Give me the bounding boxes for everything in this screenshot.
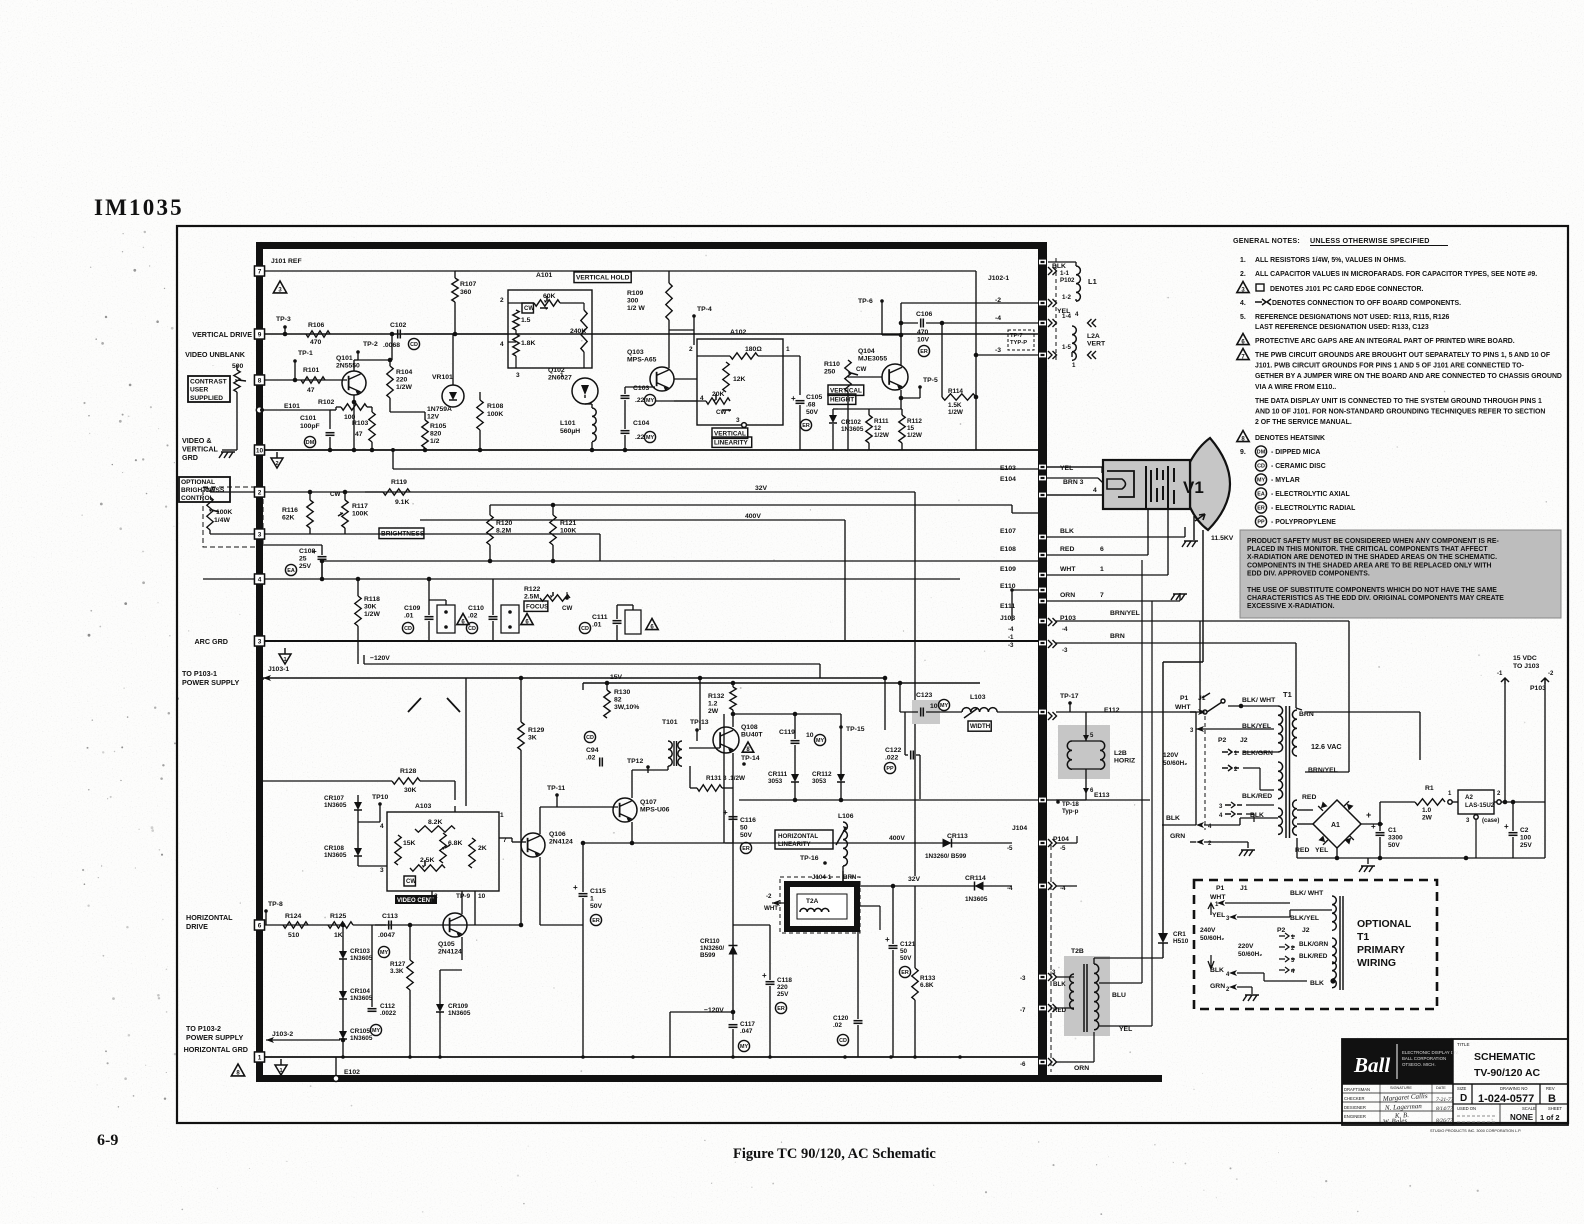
open triangle ground bottom — [280, 1059, 282, 1065]
svg-text:TP-2: TP-2 — [363, 341, 378, 348]
svg-text:50V: 50V — [590, 903, 603, 910]
svg-text:REV: REV — [1546, 1086, 1555, 1091]
svg-text:COMPONENTS IN THE SHADED AREA: COMPONENTS IN THE SHADED AREA ARE TO BE … — [1247, 562, 1492, 569]
svg-text:30K: 30K — [364, 604, 377, 611]
wire top bus 2 — [470, 270, 976, 272]
pin 9 — [255, 329, 265, 339]
svg-text:CR107: CR107 — [324, 795, 344, 802]
capacitor code CD — [1255, 460, 1266, 471]
svg-text:2N4124: 2N4124 — [549, 839, 573, 846]
svg-text:CR1: CR1 — [1173, 931, 1186, 938]
wire Q101 collector up to TP-2 node — [353, 360, 355, 371]
svg-text:50/60H₂: 50/60H₂ — [1163, 760, 1187, 767]
svg-text:ARC GRD: ARC GRD — [194, 637, 228, 646]
svg-text:C1: C1 — [1388, 827, 1397, 834]
svg-text:LAS-15U2: LAS-15U2 — [1465, 802, 1495, 809]
CRT grid bars — [1145, 466, 1147, 509]
svg-text:Q103: Q103 — [627, 349, 644, 356]
svg-text:+: + — [1504, 822, 1509, 831]
svg-text:C103: C103 — [633, 385, 649, 392]
svg-text:VR101: VR101 — [432, 374, 453, 381]
svg-text:R127: R127 — [390, 961, 406, 968]
svg-text:25: 25 — [299, 556, 307, 563]
svg-text:R133: R133 — [920, 975, 936, 982]
wire CRT grid to WHT row — [1167, 509, 1169, 575]
svg-text:CONTRAST: CONTRAST — [190, 379, 227, 386]
svg-text:TP-6: TP-6 — [858, 298, 873, 305]
svg-text:R130: R130 — [614, 689, 630, 696]
svg-text:MPS-A65: MPS-A65 — [627, 357, 657, 364]
svg-text:1: 1 — [500, 812, 504, 819]
svg-text:MY: MY — [816, 738, 824, 744]
svg-text:1N3605: 1N3605 — [965, 896, 988, 903]
wire row to E107 — [262, 450, 264, 455]
svg-text:E107: E107 — [1000, 528, 1016, 535]
pin 3 — [255, 529, 265, 539]
svg-text:L101: L101 — [560, 420, 576, 427]
svg-text:1-5: 1-5 — [1062, 344, 1072, 351]
pin 7 J101 — [255, 266, 265, 276]
CRT grid electrode bracket — [1107, 471, 1134, 497]
svg-text:3053: 3053 — [812, 778, 827, 785]
svg-text:100pF: 100pF — [300, 423, 320, 430]
capacitor C112 .0022 MY — [368, 1008, 377, 1010]
title block outer — [1342, 1039, 1568, 1125]
svg-text:50: 50 — [740, 825, 748, 832]
svg-text:CD: CD — [586, 735, 594, 741]
wire Q107 collector to T101 — [631, 770, 633, 798]
svg-text:BLK/RED: BLK/RED — [1242, 793, 1272, 800]
svg-text:30K: 30K — [404, 787, 417, 794]
L2B top lead — [1085, 712, 1087, 741]
svg-text:BLK/RED: BLK/RED — [1299, 953, 1328, 960]
svg-text:E102: E102 — [344, 1069, 360, 1076]
svg-text:2.5M: 2.5M — [524, 594, 539, 601]
svg-text:360: 360 — [460, 289, 472, 296]
svg-text:470: 470 — [917, 329, 929, 336]
svg-text:1N3605: 1N3605 — [350, 1035, 373, 1042]
connector dashed line J102 — [1055, 258, 1057, 360]
svg-text:R131 3 .1/2W: R131 3 .1/2W — [706, 775, 746, 782]
dashed mains line — [1204, 716, 1206, 830]
transformer T2A black box — [787, 884, 857, 929]
svg-text:220V: 220V — [1238, 943, 1254, 950]
A101 CW box — [522, 303, 533, 313]
pin 10 — [255, 445, 265, 455]
svg-text:3: 3 — [736, 417, 740, 424]
svg-text:GETHER BY A JUMPER WIRE ON THE: GETHER BY A JUMPER WIRE ON THE BOARD AND… — [1255, 373, 1562, 380]
svg-text:PRODUCT SAFETY MUST BE CONSIDE: PRODUCT SAFETY MUST BE CONSIDERED WHEN A… — [1247, 538, 1499, 545]
connector bar pin notches — [1039, 260, 1046, 265]
svg-text:J2: J2 — [1240, 737, 1248, 744]
svg-text:BLU: BLU — [1112, 992, 1126, 999]
svg-text:1N3260/: 1N3260/ — [700, 945, 724, 952]
svg-text:47: 47 — [355, 431, 363, 438]
wire C102 right to A101 — [404, 333, 508, 335]
svg-text:J104: J104 — [1012, 825, 1027, 832]
svg-text:J103: J103 — [1000, 615, 1015, 622]
switch J1 — [1203, 710, 1207, 714]
svg-text:1N3605: 1N3605 — [448, 1010, 471, 1017]
chassis ground at ORN row — [1179, 593, 1181, 601]
svg-text:-1: -1 — [1497, 671, 1503, 677]
svg-text:TP-5: TP-5 — [923, 377, 938, 384]
A103 CW box — [404, 876, 415, 886]
svg-text:-5: -5 — [1060, 845, 1066, 852]
capacitor code ER — [1255, 502, 1266, 513]
svg-text:.22: .22 — [635, 397, 645, 404]
svg-text:- CERAMIC DISC: - CERAMIC DISC — [1271, 463, 1326, 470]
svg-text:BLK/GRN: BLK/GRN — [1242, 750, 1273, 757]
svg-text:220: 220 — [396, 377, 408, 384]
svg-text:BRN/YEL: BRN/YEL — [1308, 767, 1338, 774]
svg-text:.0022: .0022 — [380, 1010, 396, 1017]
svg-text:−120V: −120V — [370, 655, 390, 662]
signatures script — [1382, 1092, 1454, 1126]
svg-text:-4: -4 — [1007, 885, 1013, 892]
svg-text:.01: .01 — [592, 622, 602, 629]
svg-text:1/4W: 1/4W — [214, 517, 230, 524]
svg-text:3: 3 — [516, 372, 520, 379]
svg-text:LINEARITY: LINEARITY — [778, 841, 812, 848]
svg-text:Typ-p: Typ-p — [1062, 808, 1079, 815]
svg-text:1N3605: 1N3605 — [350, 955, 373, 962]
svg-text:R108: R108 — [487, 403, 503, 410]
svg-text:T1: T1 — [1357, 931, 1369, 943]
wire 400V feed vertical — [723, 714, 725, 843]
x-radiation warning shaded box — [1240, 530, 1561, 618]
svg-text:R119: R119 — [391, 479, 407, 486]
svg-text:3W,10%: 3W,10% — [614, 704, 639, 711]
svg-text:2.5K: 2.5K — [420, 857, 434, 864]
wire P1 mains vertical — [1195, 712, 1197, 825]
svg-text:Ball: Ball — [1353, 1053, 1390, 1077]
svg-text:7: 7 — [1100, 592, 1104, 599]
L2B bottom lead — [1085, 769, 1087, 800]
svg-text:P102: P102 — [1060, 277, 1075, 284]
svg-text:HORIZONTAL GRD: HORIZONTAL GRD — [184, 1045, 248, 1054]
chassis ground at video gnd — [222, 449, 237, 451]
svg-text:TP12: TP12 — [627, 758, 643, 765]
used on / scale / sheet row — [1453, 1103, 1568, 1105]
capacitor code MY — [1255, 474, 1266, 485]
svg-text:6: 6 — [1100, 546, 1104, 553]
svg-text:.02: .02 — [468, 613, 478, 620]
svg-text:.01: .01 — [404, 613, 414, 620]
svg-text:6.8K: 6.8K — [448, 840, 462, 847]
svg-text:C111: C111 — [592, 614, 608, 621]
CRT anode arrow 11.5KV — [1195, 514, 1205, 521]
svg-text:MY: MY — [940, 703, 948, 709]
svg-text:BRN 3: BRN 3 — [1063, 479, 1084, 486]
svg-text:1: 1 — [1072, 362, 1076, 369]
PCB board border thick bar bottom — [256, 1075, 1162, 1082]
svg-text:50V: 50V — [900, 955, 912, 962]
svg-text:DRIVE: DRIVE — [186, 922, 208, 931]
svg-text:GRD: GRD — [182, 453, 198, 462]
arc gap warning triangle 2 — [521, 614, 533, 625]
label HORIZONTAL LINEARITY box — [775, 830, 833, 849]
svg-text:1.5: 1.5 — [521, 317, 531, 324]
svg-text:R106: R106 — [308, 322, 324, 329]
bridge rectifier A1 — [1313, 800, 1361, 848]
svg-text:LINEARITY: LINEARITY — [714, 439, 748, 446]
svg-text:YEL: YEL — [1212, 912, 1225, 919]
svg-text:8.2K: 8.2K — [428, 819, 442, 826]
svg-text:EDD DIV. APPROVED COMPONENTS.: EDD DIV. APPROVED COMPONENTS. — [1247, 570, 1370, 577]
svg-text:1N3605: 1N3605 — [324, 802, 347, 809]
svg-text:R101: R101 — [303, 367, 319, 374]
CRT ground — [1193, 516, 1195, 540]
svg-text:YEL: YEL — [1060, 465, 1073, 472]
svg-text:THE PWB CIRCUIT GROUNDS ARE BR: THE PWB CIRCUIT GROUNDS ARE BROUGHT OUT … — [1255, 352, 1550, 359]
svg-text:CHECKER: CHECKER — [1344, 1096, 1364, 1101]
svg-text:50V: 50V — [740, 832, 753, 839]
transistor Q106 2N4124 — [521, 833, 545, 857]
svg-text:- MYLAR: - MYLAR — [1271, 477, 1300, 484]
svg-text:50/60H₂: 50/60H₂ — [1238, 951, 1262, 958]
svg-text:CR113: CR113 — [947, 833, 968, 840]
svg-text:6: 6 — [258, 923, 262, 930]
optional T1 primary wiring box — [1194, 880, 1437, 1009]
svg-text:C102: C102 — [390, 322, 406, 329]
svg-text:10: 10 — [478, 893, 486, 900]
svg-text:R125: R125 — [330, 913, 346, 920]
svg-text:CW: CW — [856, 366, 866, 373]
svg-text:R129: R129 — [528, 727, 544, 734]
svg-text:3: 3 — [258, 532, 262, 539]
svg-text:50/60H₂: 50/60H₂ — [1200, 935, 1224, 942]
svg-text:TV-90/120 AC: TV-90/120 AC — [1474, 1067, 1541, 1079]
wires brightness pot to pins 2,3,4 — [210, 491, 254, 493]
transistor Q105 2N4124 — [443, 913, 467, 937]
svg-text:2N4124: 2N4124 — [438, 949, 462, 956]
svg-text:CD: CD — [468, 626, 476, 632]
note 8 triangle heatsink — [1237, 431, 1249, 442]
svg-text:OTSEGO. MICH.: OTSEGO. MICH. — [1402, 1062, 1436, 1067]
svg-text:(case): (case) — [1482, 818, 1499, 824]
svg-text:DESIGNER: DESIGNER — [1344, 1105, 1366, 1110]
svg-text:180Ω: 180Ω — [745, 346, 762, 353]
svg-text:BU40T: BU40T — [741, 732, 763, 739]
svg-text:4: 4 — [1075, 311, 1079, 318]
svg-text:250: 250 — [824, 369, 836, 376]
svg-text:560µH: 560µH — [560, 428, 580, 435]
svg-text:BLK/GRN: BLK/GRN — [1299, 941, 1328, 948]
wire Q108 collector row — [733, 713, 841, 715]
svg-text:TP-17: TP-17 — [1060, 693, 1079, 700]
wires A2 output — [1497, 800, 1501, 804]
TP-7 dashed box — [1008, 330, 1034, 350]
svg-text:1: 1 — [786, 346, 790, 353]
svg-text:2 OF THE SERVICE MANUAL.: 2 OF THE SERVICE MANUAL. — [1255, 419, 1352, 426]
svg-text:TP-4: TP-4 — [697, 306, 712, 313]
svg-text:OPTIONAL: OPTIONAL — [1357, 918, 1412, 930]
svg-text:-1: -1 — [1008, 634, 1014, 641]
warning triangle 3 at J101 — [273, 281, 286, 293]
optional T1 winding — [1332, 896, 1336, 930]
svg-text:A103: A103 — [415, 803, 431, 810]
wire arc grd bus — [265, 640, 1038, 642]
svg-text:C104: C104 — [633, 420, 649, 427]
svg-text:CR105: CR105 — [350, 1028, 370, 1035]
svg-text:25V: 25V — [777, 991, 789, 998]
svg-text:BALL CORPORATION: BALL CORPORATION — [1402, 1056, 1446, 1061]
svg-text:-6: -6 — [1020, 1061, 1026, 1068]
svg-text:TP-1: TP-1 — [298, 350, 313, 357]
svg-text:+: + — [1366, 810, 1371, 820]
wire Q101 base — [258, 379, 347, 381]
svg-text:1/2: 1/2 — [430, 438, 440, 445]
svg-text:SIZE: SIZE — [1457, 1086, 1467, 1091]
svg-text:J103-1: J103-1 — [268, 666, 289, 673]
T2B secondary coil — [1094, 964, 1099, 1030]
svg-text:R104: R104 — [396, 369, 412, 376]
svg-text:R105: R105 — [430, 423, 446, 430]
svg-text:T1: T1 — [1283, 690, 1292, 699]
svg-text:12: 12 — [874, 425, 882, 432]
svg-text:100: 100 — [1520, 834, 1531, 841]
svg-text:CD: CD — [581, 626, 589, 632]
heatsink triangle at Q108 — [742, 742, 753, 752]
wires heading to P104 from right nets — [1056, 842, 1077, 844]
arrows into J1 — [1198, 709, 1206, 715]
svg-text:8.2M: 8.2M — [496, 528, 511, 535]
svg-text:-4: -4 — [995, 315, 1001, 322]
svg-text:Q102: Q102 — [548, 367, 565, 374]
svg-text:CR114: CR114 — [965, 875, 986, 882]
svg-text:Q104: Q104 — [858, 348, 875, 355]
svg-text:USED ON: USED ON — [1457, 1106, 1476, 1111]
svg-text:TP10: TP10 — [372, 794, 388, 801]
svg-text:CHARACTERISTICS AS THE EDD DIV: CHARACTERISTICS AS THE EDD DIV. ORIGINAL… — [1247, 595, 1504, 602]
svg-text:1: 1 — [258, 1055, 262, 1062]
svg-text:3: 3 — [258, 639, 262, 646]
svg-text:CR104: CR104 — [350, 988, 370, 995]
svg-text:TO J103: TO J103 — [1513, 663, 1540, 670]
svg-text:BLK/ WHT: BLK/ WHT — [1290, 890, 1324, 897]
svg-text:15K: 15K — [403, 840, 416, 847]
svg-text:C119: C119 — [779, 729, 795, 736]
wire bottom bus power — [1297, 857, 1520, 859]
svg-text:R120: R120 — [496, 520, 512, 527]
svg-text:1-2: 1-2 — [1062, 294, 1072, 301]
svg-text:HORIZONTAL: HORIZONTAL — [778, 833, 818, 840]
svg-text:1-4: 1-4 — [1062, 313, 1072, 320]
svg-text:CONTROL: CONTROL — [181, 495, 214, 502]
wire Q101 emitter down — [353, 395, 355, 402]
wire E110 drop — [1011, 590, 1013, 621]
svg-text:1.5K: 1.5K — [948, 402, 962, 409]
svg-text:CD: CD — [1257, 464, 1265, 470]
svg-text:MY: MY — [372, 1028, 380, 1034]
svg-text:C94: C94 — [586, 747, 599, 754]
wire 15V row — [583, 682, 980, 684]
T2B primary coil — [1070, 974, 1074, 1009]
T1 core — [1285, 706, 1287, 838]
wire T2A secondary lead — [857, 905, 880, 907]
svg-text:2W: 2W — [708, 708, 719, 715]
Ball logo black box — [1342, 1039, 1453, 1084]
svg-text:SIGNATURE: SIGNATURE — [1390, 1086, 1412, 1090]
PCB board border thick bar top — [256, 242, 1046, 249]
svg-text:TP-9: TP-9 — [456, 893, 470, 900]
svg-text:1/2W: 1/2W — [948, 409, 964, 416]
wire YEL lead up to ORN row — [1099, 1025, 1152, 1027]
svg-text:1: 1 — [279, 1068, 282, 1074]
svg-text:10: 10 — [806, 732, 814, 739]
svg-text:+: + — [885, 935, 890, 944]
svg-text:.68: .68 — [806, 402, 816, 409]
svg-text:CR109: CR109 — [448, 1003, 468, 1010]
label VIDEO CENT box — [395, 895, 437, 904]
svg-text:4: 4 — [258, 577, 262, 584]
svg-text:1N3605: 1N3605 — [324, 852, 347, 859]
pin 1 horizontal grd — [255, 1052, 265, 1062]
svg-text:W. Bales: W. Bales — [1383, 1117, 1408, 1126]
capacitor code DM — [1255, 446, 1266, 457]
svg-text:-2: -2 — [995, 297, 1001, 304]
CRT V1 bell — [1190, 438, 1230, 530]
svg-text:OPTIONAL: OPTIONAL — [181, 479, 215, 486]
svg-text:3K: 3K — [528, 735, 537, 742]
svg-text:-2: -2 — [766, 893, 772, 900]
svg-text:WHT: WHT — [1175, 704, 1191, 711]
svg-text:4: 4 — [500, 341, 504, 348]
A2 pin 3 case — [1474, 815, 1478, 819]
svg-text:BLK: BLK — [1166, 815, 1180, 822]
T1 primary winding — [1278, 706, 1283, 752]
svg-text:DENOTES J101 PC CARD EDGE CONN: DENOTES J101 PC CARD EDGE CONNECTOR. — [1270, 286, 1423, 293]
diode CR113 1N3260/B599 — [943, 839, 952, 848]
wire T101 to Q108 base — [689, 747, 720, 749]
svg-text:CD: CD — [839, 1038, 847, 1044]
svg-text:B: B — [1548, 1093, 1556, 1105]
svg-text:12K: 12K — [733, 376, 746, 383]
note 7 triangle — [1237, 349, 1249, 360]
svg-text:C101: C101 — [300, 415, 316, 422]
svg-text:1-1: 1-1 — [1060, 270, 1070, 277]
svg-text:CD: CD — [410, 342, 418, 348]
svg-text:R128: R128 — [400, 768, 416, 775]
wires CRT pins left — [1047, 466, 1103, 468]
svg-text:BLK: BLK — [1210, 967, 1224, 974]
svg-text:ER: ER — [901, 970, 909, 976]
title block row separators — [1342, 1083, 1568, 1085]
svg-text:12.6 VAC: 12.6 VAC — [1311, 742, 1342, 751]
svg-text:THE USE OF SUBSTITUTE COMPONEN: THE USE OF SUBSTITUTE COMPONENTS WHICH D… — [1247, 587, 1497, 594]
svg-text:R1: R1 — [1425, 785, 1434, 792]
svg-text:MY: MY — [740, 1044, 748, 1050]
svg-text:E109: E109 — [1000, 566, 1016, 573]
resistor R111 12 1/2W — [866, 415, 872, 443]
note 6 triangle — [1237, 334, 1249, 345]
svg-text:15 VDC: 15 VDC — [1513, 655, 1537, 662]
svg-text:R109: R109 — [627, 290, 643, 297]
resistor R112 15 1/2W — [899, 415, 905, 443]
optional chassis ground — [1251, 987, 1253, 994]
svg-text:CW: CW — [330, 491, 340, 498]
svg-text:J1: J1 — [1240, 885, 1248, 892]
arc gap warning triangle 3 — [646, 619, 658, 630]
pin 2 — [255, 487, 265, 497]
svg-text:9: 9 — [258, 332, 262, 339]
svg-text:ENGINEER: ENGINEER — [1344, 1114, 1366, 1119]
wire -120V stub — [357, 641, 359, 664]
svg-text:CR102: CR102 — [841, 419, 861, 426]
open triangle ground below arc grd — [284, 648, 286, 654]
svg-text:1/2W: 1/2W — [396, 384, 412, 391]
